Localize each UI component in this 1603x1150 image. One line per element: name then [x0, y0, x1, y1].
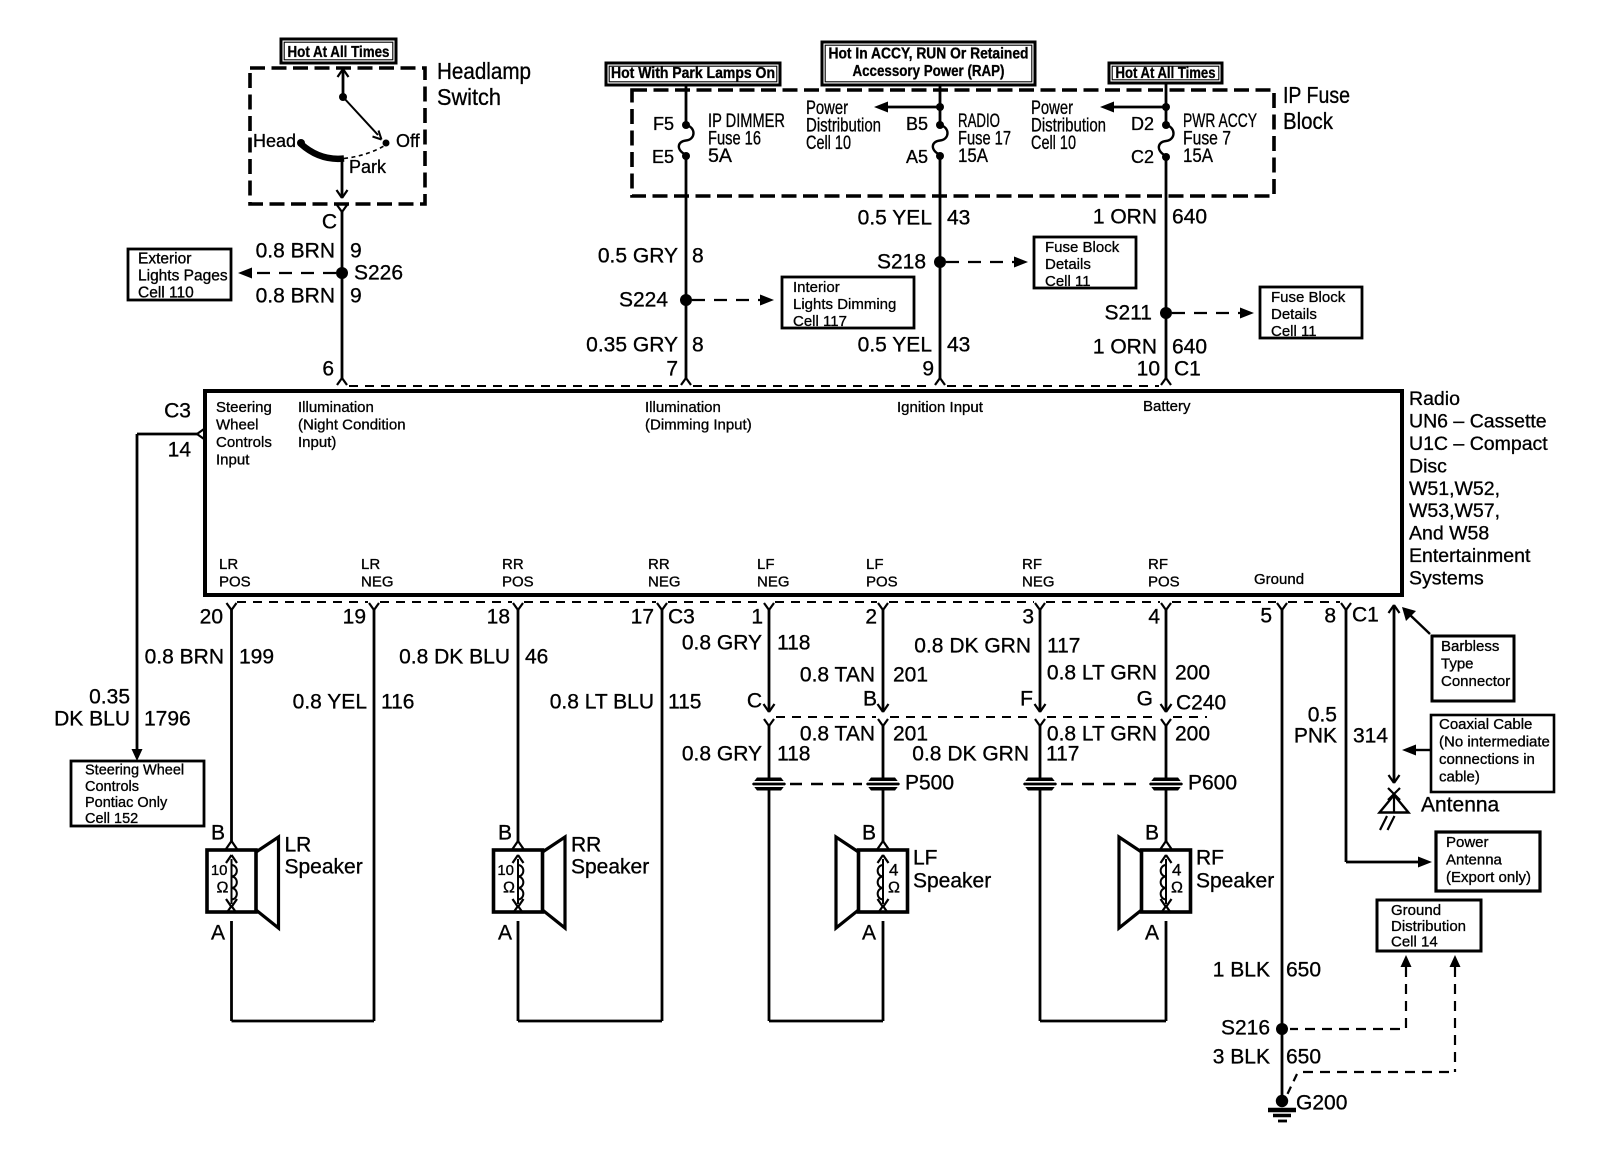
svg-text:200: 200	[1175, 661, 1210, 684]
dashed ground link G200 to ground distribution	[1286, 955, 1461, 1097]
radio output label LF NEG	[757, 556, 790, 591]
wire label 0.8 LT GRN 200 (above C240)	[1047, 661, 1210, 684]
svg-text:0.5: 0.5	[1308, 703, 1337, 726]
C240 pin B label	[863, 687, 877, 710]
svg-text:Steering Wheel: Steering Wheel	[85, 763, 184, 779]
svg-text:117: 117	[1047, 634, 1080, 657]
wire: S211 down to radio pin 10 C1	[1161, 313, 1171, 385]
headlamp switch common pivot	[339, 93, 347, 101]
svg-text:LR: LR	[219, 556, 238, 573]
pin 10 C1 label	[1137, 357, 1201, 380]
wire: steering wheel controls from radio C3-14	[132, 434, 143, 761]
wire label 0.5 GRY 8	[598, 244, 704, 267]
svg-text:4: 4	[1172, 860, 1181, 879]
grommet P500 left half	[752, 778, 786, 791]
wire label 0.5 PNK 314	[1294, 703, 1389, 747]
IP fuse block label	[1283, 82, 1350, 134]
wire: Park output down to connector C	[322, 158, 348, 233]
radio output label RF POS	[1148, 556, 1180, 591]
wire: battery feed to fuse 7	[1165, 83, 1168, 125]
svg-text:IP Fuse: IP Fuse	[1283, 82, 1350, 108]
svg-text:Speaker: Speaker	[1196, 869, 1274, 892]
svg-text:Ignition Input: Ignition Input	[897, 399, 984, 416]
radio input label: battery	[1143, 398, 1191, 415]
svg-text:A: A	[1145, 921, 1159, 944]
junction to power distribution (radio fuse)	[874, 102, 944, 113]
svg-text:17: 17	[631, 605, 654, 628]
grommet P600 left half	[1023, 778, 1057, 791]
svg-text:NEG: NEG	[361, 574, 394, 591]
svg-text:LF: LF	[913, 846, 938, 869]
radio input label: illumination dimming	[645, 399, 752, 434]
LF speaker pin B	[862, 821, 876, 844]
svg-text:118: 118	[777, 631, 810, 654]
radio input label: steering wheel controls	[216, 399, 272, 469]
svg-text:Entertainment: Entertainment	[1409, 545, 1531, 567]
junction to power distribution (pwr accy fuse)	[1100, 102, 1170, 113]
RR speaker pin B	[498, 821, 512, 844]
svg-text:14: 14	[168, 438, 192, 461]
headlamp switch wiper arm to Off	[343, 97, 382, 140]
svg-text:C: C	[322, 210, 337, 233]
svg-text:P600: P600	[1188, 771, 1237, 794]
splice S211	[1105, 301, 1173, 324]
svg-text:Controls: Controls	[216, 434, 272, 451]
svg-text:201: 201	[893, 663, 928, 686]
svg-text:G: G	[1137, 687, 1153, 710]
reference text: Power Distribution Cell 10 (left)	[806, 98, 881, 154]
svg-text:0.5 YEL: 0.5 YEL	[858, 333, 932, 356]
svg-text:Connector: Connector	[1441, 673, 1510, 690]
splice S216	[1221, 1016, 1288, 1039]
svg-text:DK BLU: DK BLU	[54, 707, 130, 730]
wire: radio pin 5 ground down to S216	[1277, 603, 1287, 1029]
svg-text:B: B	[862, 821, 876, 844]
svg-text:POS: POS	[219, 574, 251, 591]
speaker RR 10 ohm	[494, 833, 650, 928]
svg-text:Systems: Systems	[1409, 567, 1484, 589]
svg-text:Steering: Steering	[216, 399, 272, 416]
svg-text:Park: Park	[349, 157, 387, 177]
svg-text:B5: B5	[906, 114, 928, 134]
wire: C240 pin F to grommet P600	[1035, 719, 1045, 778]
RF speaker pin A	[1145, 921, 1159, 944]
fuse F17 RADIO 15A	[906, 111, 1011, 167]
wire: C240 pin C to grommet P500	[764, 719, 774, 778]
RF speaker pin B	[1145, 821, 1159, 844]
ground G200	[1268, 1091, 1347, 1121]
svg-text:1 ORN: 1 ORN	[1093, 335, 1157, 358]
svg-text:cable): cable)	[1439, 769, 1480, 786]
wire: P500 down and loop to LF speaker A	[769, 790, 888, 1021]
svg-text:Distribution: Distribution	[1391, 918, 1466, 935]
svg-text:A: A	[211, 921, 225, 944]
svg-text:Fuse Block: Fuse Block	[1045, 239, 1120, 256]
LF speaker pin A	[862, 921, 876, 944]
svg-text:0.8 LT BLU: 0.8 LT BLU	[550, 690, 654, 713]
IP fuse block enclosure (dashed)	[632, 90, 1274, 196]
wire label 0.8 TAN 201 (above C240)	[800, 663, 928, 686]
svg-text:314: 314	[1353, 724, 1388, 747]
switch wiper arc Head-Park (thick)	[301, 144, 344, 159]
svg-text:Block: Block	[1283, 108, 1333, 134]
radio output label LR POS	[219, 556, 251, 591]
C240 pin F label	[1020, 687, 1033, 710]
svg-text:S224: S224	[619, 288, 668, 311]
pin 3 label	[1022, 605, 1034, 628]
svg-text:Cell 10: Cell 10	[806, 133, 851, 154]
C240 pin C label	[747, 689, 762, 712]
svg-text:Interior: Interior	[793, 279, 840, 296]
wire label 0.8 LT BLU 115	[550, 690, 702, 713]
svg-text:Pontiac Only: Pontiac Only	[85, 795, 168, 811]
wire: radio pin 8 to power antenna	[1341, 603, 1432, 868]
fuse F16 IP DIMMER 5A	[652, 111, 785, 167]
svg-text:116: 116	[381, 690, 414, 713]
connector C240 dashed line	[776, 716, 1207, 718]
svg-text:UN6 – Cassette: UN6 – Cassette	[1409, 411, 1547, 433]
svg-text:(No intermediate: (No intermediate	[1439, 734, 1550, 751]
svg-text:0.8 GRY: 0.8 GRY	[682, 631, 762, 654]
radio connector C3 on left (steering wheel controls)	[137, 399, 204, 461]
wire label 0.8 BRN 199	[145, 645, 274, 668]
node: Head position	[253, 131, 305, 151]
svg-text:PNK: PNK	[1294, 724, 1337, 747]
svg-text:5: 5	[1260, 604, 1272, 627]
wire: C240 pin B to grommet P500	[878, 719, 888, 778]
svg-text:Ω: Ω	[888, 880, 900, 897]
svg-text:C1: C1	[1174, 357, 1201, 380]
wire label 0.35 DK BLU 1796	[54, 685, 191, 730]
wire: radio pin 1 LF NEG to connector C240 pin C	[764, 603, 775, 712]
svg-text:1 BLK: 1 BLK	[1213, 958, 1270, 981]
svg-text:4: 4	[889, 860, 898, 879]
wire: S216 down to ground G200	[1281, 1029, 1284, 1098]
svg-text:0.5 YEL: 0.5 YEL	[858, 206, 932, 229]
svg-text:C1: C1	[1352, 603, 1379, 626]
svg-text:9: 9	[922, 357, 934, 380]
svg-text:And W58: And W58	[1409, 523, 1489, 545]
svg-text:10: 10	[211, 862, 228, 879]
svg-text:C: C	[747, 689, 762, 712]
svg-text:1: 1	[751, 605, 763, 628]
svg-text:F: F	[1020, 687, 1033, 710]
connector C3 label / pin 1 / pin 2	[668, 605, 877, 628]
svg-text:640: 640	[1172, 205, 1207, 228]
svg-text:3 BLK: 3 BLK	[1213, 1045, 1270, 1068]
wire label 0.5 YEL 43 (upper)	[858, 206, 971, 229]
dashed link S211 to fuse block details	[1172, 308, 1254, 319]
wire label 1 ORN 640 (upper)	[1093, 205, 1207, 228]
svg-text:(Export only): (Export only)	[1446, 869, 1531, 886]
svg-text:(Night Condition: (Night Condition	[298, 416, 406, 433]
svg-text:Headlamp: Headlamp	[437, 58, 531, 84]
svg-text:C2: C2	[1131, 147, 1154, 167]
radio output label Ground	[1254, 571, 1304, 588]
svg-text:P500: P500	[905, 771, 954, 794]
wire: headlamp C down to S226	[341, 212, 344, 273]
svg-text:0.8 BRN: 0.8 BRN	[256, 284, 335, 307]
radio input label: ignition input	[897, 399, 984, 416]
reference box: Ground Distribution Cell 14	[1377, 900, 1481, 951]
svg-text:9: 9	[350, 239, 362, 262]
wire label 0.8 DK GRN 117 (below C240)	[912, 742, 1079, 765]
power label: Hot At All Times (IP fuse block)	[1109, 63, 1222, 83]
svg-text:Radio: Radio	[1409, 388, 1460, 410]
wire: park lamps feed to fuse 16	[685, 85, 688, 125]
wire label 0.8 BRN 9 (lower)	[256, 284, 362, 307]
connector dashed line below radio (pins 20..8)	[237, 601, 1340, 603]
svg-text:Cell 117: Cell 117	[793, 313, 847, 330]
pin 18 label	[487, 605, 510, 628]
wire: fuse17 A5 down to S218	[939, 156, 942, 262]
wire label 0.8 DK GRN 117 (above C240)	[914, 634, 1080, 657]
svg-text:640: 640	[1172, 335, 1207, 358]
pin 20 label	[200, 605, 223, 628]
connector C1 label (bottom)	[1352, 603, 1379, 626]
svg-text:Cell 11: Cell 11	[1045, 273, 1091, 290]
svg-text:9: 9	[350, 284, 362, 307]
svg-text:Hot At All Times: Hot At All Times	[1116, 65, 1216, 82]
svg-text:Switch: Switch	[437, 84, 501, 110]
svg-text:C240: C240	[1176, 691, 1226, 714]
svg-text:Barbless: Barbless	[1441, 638, 1499, 655]
svg-text:0.5 GRY: 0.5 GRY	[598, 244, 678, 267]
svg-text:LF: LF	[757, 556, 775, 573]
svg-text:118: 118	[777, 742, 810, 765]
dashed link S226 to exterior lights	[238, 268, 336, 279]
svg-text:0.35 GRY: 0.35 GRY	[586, 333, 678, 356]
svg-text:Fuse Block: Fuse Block	[1271, 289, 1346, 306]
svg-text:Input): Input)	[298, 434, 336, 451]
svg-text:4: 4	[1148, 605, 1160, 628]
wire: radio pin 18 to RR speaker B	[513, 603, 524, 849]
wire: P500 to LF speaker B	[878, 790, 889, 849]
svg-text:1796: 1796	[144, 707, 191, 730]
svg-text:Cell 11: Cell 11	[1271, 323, 1317, 340]
reference box: Exterior Lights Pages Cell 110	[128, 249, 231, 301]
svg-text:Cell 10: Cell 10	[1031, 133, 1076, 154]
svg-text:POS: POS	[866, 574, 898, 591]
svg-text:Hot At All Times: Hot At All Times	[288, 44, 390, 61]
splice S224	[619, 288, 692, 311]
radio output label LR NEG	[361, 556, 394, 591]
svg-text:NEG: NEG	[757, 574, 790, 591]
svg-text:Details: Details	[1271, 306, 1317, 323]
wire label 1 BLK 650	[1213, 958, 1321, 981]
wire label 0.8 LT GRN 200 (below C240)	[1047, 722, 1210, 745]
wire label 0.8 DK BLU 46	[399, 645, 548, 668]
svg-text:LF: LF	[866, 556, 884, 573]
svg-text:W53,W57,: W53,W57,	[1409, 500, 1500, 522]
svg-text:18: 18	[487, 605, 510, 628]
svg-text:0.8 BRN: 0.8 BRN	[145, 645, 224, 668]
svg-text:G200: G200	[1296, 1091, 1347, 1114]
svg-text:8: 8	[1324, 604, 1336, 627]
splice S218	[877, 250, 946, 273]
svg-text:RF: RF	[1196, 846, 1224, 869]
svg-text:E5: E5	[652, 147, 674, 167]
wire: LR speaker A return loop to pin 19	[227, 603, 380, 1021]
svg-text:Cell 110: Cell 110	[138, 284, 194, 301]
barbless connector callout arrow	[1402, 607, 1430, 634]
grommet P600 right half	[1149, 771, 1237, 794]
svg-text:NEG: NEG	[1022, 574, 1055, 591]
wire label 0.8 YEL 116	[293, 690, 415, 713]
svg-text:3: 3	[1022, 605, 1034, 628]
svg-text:A: A	[862, 921, 876, 944]
wire: P600 down and loop to RF speaker A	[1040, 790, 1171, 1021]
svg-text:C3: C3	[668, 605, 695, 628]
svg-text:Speaker: Speaker	[285, 855, 363, 878]
pin 8 label	[1324, 604, 1336, 627]
wire: radio pin 20 to LR speaker B	[226, 603, 237, 849]
label: Park	[349, 157, 387, 177]
reference box: Interior Lights Dimming Cell 117	[782, 277, 914, 330]
reference box: Steering Wheel Controls Pontiac Only Cell 152	[71, 761, 204, 827]
speaker RF 4 ohm	[1119, 837, 1274, 928]
svg-text:Ground: Ground	[1391, 902, 1441, 919]
wire: radio pin 4 RF POS to connector C240 pin G	[1161, 603, 1172, 712]
svg-text:Speaker: Speaker	[913, 869, 991, 892]
svg-text:Speaker: Speaker	[571, 855, 649, 878]
svg-text:0.8 LT GRN: 0.8 LT GRN	[1047, 661, 1157, 684]
svg-text:RR: RR	[648, 556, 670, 573]
LR speaker pin A	[211, 921, 225, 944]
svg-text:15A: 15A	[958, 146, 988, 167]
svg-text:Power: Power	[1446, 834, 1489, 851]
headlamp switch enclosure (dashed)	[250, 68, 425, 204]
svg-text:POS: POS	[502, 574, 534, 591]
wire label 3 BLK 650	[1213, 1045, 1321, 1068]
svg-text:650: 650	[1286, 1045, 1321, 1068]
reference box: Fuse Block Details Cell 11 (left of S211)	[1260, 287, 1362, 340]
svg-text:F5: F5	[653, 114, 674, 134]
RR speaker pin A	[498, 921, 512, 944]
svg-text:Ω: Ω	[1171, 880, 1183, 897]
svg-text:Hot With Park Lamps On: Hot With Park Lamps On	[611, 65, 775, 82]
reference text: Power Distribution Cell 10 (right)	[1031, 98, 1106, 154]
svg-text:19: 19	[343, 605, 366, 628]
wire label 0.8 BRN 9 (upper)	[256, 239, 362, 262]
svg-text:20: 20	[200, 605, 223, 628]
svg-text:Ω: Ω	[217, 880, 229, 897]
svg-text:Cell 152: Cell 152	[85, 811, 138, 827]
reference box: Coaxial Cable note	[1431, 715, 1554, 792]
svg-text:Illumination: Illumination	[645, 399, 721, 416]
svg-text:RF: RF	[1022, 556, 1042, 573]
svg-text:connections in: connections in	[1439, 751, 1535, 768]
reference box: Barbless Type Connector	[1432, 636, 1514, 701]
dashed tie P600	[1061, 783, 1143, 785]
dashed tie P500	[790, 783, 862, 785]
radio output label RF NEG	[1022, 556, 1055, 591]
wire: radio pin 2 LF POS to connector C240 pin B	[878, 603, 889, 712]
speaker LR 10 ohm	[207, 833, 363, 928]
svg-text:0.8 DK BLU: 0.8 DK BLU	[399, 645, 510, 668]
coaxial antenna lead from radio C1	[1389, 605, 1400, 783]
pin 7 label	[666, 357, 678, 380]
svg-text:Input: Input	[216, 451, 250, 468]
pin 6 label	[322, 357, 334, 380]
svg-text:650: 650	[1286, 958, 1321, 981]
svg-text:LR: LR	[285, 833, 312, 856]
svg-text:Illumination: Illumination	[298, 399, 374, 416]
svg-text:D2: D2	[1131, 114, 1154, 134]
svg-text:NEG: NEG	[648, 574, 681, 591]
svg-text:B: B	[863, 687, 877, 710]
radio output label LF POS	[866, 556, 898, 591]
node: Off position	[383, 131, 421, 151]
wire: RAP feed to fuse 17	[939, 85, 942, 125]
svg-text:0.8 GRY: 0.8 GRY	[682, 742, 762, 765]
svg-text:W51,W52,: W51,W52,	[1409, 478, 1500, 500]
svg-text:Coaxial Cable: Coaxial Cable	[1439, 716, 1532, 733]
wire: fuse16 E5 down to S224	[685, 156, 688, 300]
svg-text:199: 199	[239, 645, 274, 668]
pin 5 label	[1260, 604, 1272, 627]
svg-text:7: 7	[666, 357, 678, 380]
svg-text:POS: POS	[1148, 574, 1180, 591]
svg-text:Lights Pages: Lights Pages	[138, 267, 228, 284]
splice S226	[336, 261, 403, 284]
fuse F7 PWR ACCY 15A	[1131, 111, 1257, 167]
svg-text:LR: LR	[361, 556, 380, 573]
svg-text:RF: RF	[1148, 556, 1168, 573]
svg-text:Antenna: Antenna	[1446, 852, 1503, 869]
dashed link S218 to fuse block details	[946, 257, 1028, 268]
svg-text:S216: S216	[1221, 1016, 1270, 1039]
dashed arc Park-Off	[344, 146, 384, 159]
svg-text:0.8 BRN: 0.8 BRN	[256, 239, 335, 262]
svg-text:Ground: Ground	[1254, 571, 1304, 588]
svg-text:Disc: Disc	[1409, 455, 1447, 477]
svg-text:0.8 YEL: 0.8 YEL	[293, 690, 367, 713]
svg-text:43: 43	[947, 333, 970, 356]
svg-text:RR: RR	[502, 556, 524, 573]
pin 9 label	[922, 357, 934, 380]
svg-text:S211: S211	[1105, 301, 1153, 324]
svg-text:6: 6	[322, 357, 334, 380]
wire label 0.8 GRY 118 (above C240)	[682, 631, 811, 654]
svg-text:S226: S226	[354, 261, 403, 284]
svg-text:5A: 5A	[708, 146, 732, 167]
connector C1 dashed line above radio	[349, 385, 1159, 387]
svg-text:115: 115	[668, 690, 701, 713]
svg-text:RR: RR	[571, 833, 601, 856]
svg-text:Ω: Ω	[503, 880, 515, 897]
reference box: Power Antenna (Export only)	[1436, 832, 1540, 891]
svg-text:Head: Head	[253, 131, 296, 151]
svg-text:Off: Off	[396, 131, 421, 151]
grommet P500 right half	[866, 771, 954, 794]
svg-text:10: 10	[1137, 357, 1160, 380]
svg-text:B: B	[1145, 821, 1159, 844]
svg-text:1 ORN: 1 ORN	[1093, 205, 1157, 228]
pin 17 label	[631, 605, 654, 628]
svg-text:46: 46	[525, 645, 548, 668]
svg-text:Exterior: Exterior	[138, 250, 191, 267]
svg-text:(Dimming Input): (Dimming Input)	[645, 416, 752, 433]
dashed ground link S216 to ground distribution	[1290, 955, 1412, 1029]
power label: Hot At All Times (headlamp)	[281, 39, 396, 63]
svg-text:43: 43	[947, 206, 970, 229]
svg-text:0.8 DK GRN: 0.8 DK GRN	[912, 742, 1029, 765]
svg-text:200: 200	[1175, 722, 1210, 745]
svg-text:15A: 15A	[1183, 146, 1213, 167]
wire: P600 to RF speaker B	[1161, 790, 1172, 849]
headlamp switch label	[437, 58, 531, 110]
